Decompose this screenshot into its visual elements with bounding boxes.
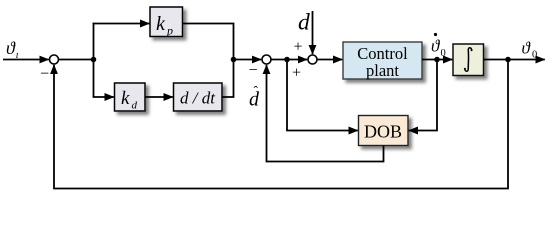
- wire: top path into kp: [93, 23, 150, 25]
- svg-text:d / dt: d / dt: [180, 89, 216, 108]
- svg-text:p: p: [166, 24, 173, 38]
- wire: kp output to merge: [183, 24, 234, 60]
- wire: S1 output to branch node: [59, 59, 94, 61]
- wire: d/dt output to merge: [222, 60, 234, 98]
- node: output label theta_0: [522, 39, 538, 61]
- wire: plant output tap down to DOB right input: [409, 60, 437, 131]
- wire: Control plant to integrator: [422, 59, 452, 61]
- block kd: [115, 83, 146, 112]
- svg-text:k: k: [121, 88, 130, 109]
- svg-text:−: −: [249, 62, 258, 79]
- block DOB: [359, 116, 409, 146]
- wire: tap down to DOB left input: [287, 60, 358, 131]
- svg-text:ϑ: ϑ: [431, 37, 441, 56]
- svg-text:d: d: [298, 10, 310, 36]
- node: tap dot to DOB input: [284, 57, 290, 63]
- wire: outer feedback loop: [54, 60, 508, 189]
- wire: merge to S2: [234, 59, 262, 61]
- wire: kd to d/dt: [145, 96, 173, 98]
- svg-text:ϑ: ϑ: [6, 38, 16, 58]
- block d/dt: [174, 83, 223, 111]
- summing junction S1: [50, 55, 59, 64]
- svg-text:ı: ı: [16, 50, 19, 61]
- wire: bottom path from branch to kd: [94, 95, 114, 98]
- wire: S3 to Control plant: [318, 59, 343, 61]
- svg-text:plant: plant: [366, 61, 399, 80]
- node: input label theta_i: [6, 38, 19, 61]
- node: label thetadot_0: [431, 33, 446, 59]
- svg-text:k: k: [156, 13, 166, 35]
- summing junction S3: [308, 55, 317, 64]
- svg-text:ϑ: ϑ: [522, 39, 532, 58]
- node: label dhat: [249, 84, 260, 111]
- svg-text:0: 0: [532, 50, 537, 61]
- node: merge dot: [231, 57, 237, 63]
- svg-text:0: 0: [441, 48, 446, 59]
- summing junction S2: [262, 55, 271, 64]
- wire: integrator output: [484, 59, 545, 61]
- svg-text:+: +: [294, 39, 303, 56]
- wire: input line theta_i: [3, 59, 49, 61]
- wire: branch vertical: [93, 23, 95, 97]
- svg-text:d: d: [132, 100, 138, 112]
- wire: S2 to S3 with tap dot: [272, 59, 308, 61]
- node: dot tap to DOB right: [434, 57, 440, 63]
- block kp: [150, 7, 183, 38]
- block integrator: [453, 44, 484, 76]
- block Control plant U1: [343, 42, 422, 80]
- wire: DOB output dhat to S2: [267, 65, 384, 162]
- svg-text:−: −: [40, 65, 49, 82]
- wire: d arrow into S3: [312, 11, 314, 54]
- svg-text:ˆ: ˆ: [254, 84, 259, 99]
- svg-text:DOB: DOB: [364, 122, 402, 142]
- svg-text:+: +: [292, 65, 301, 82]
- node: branch dot: [91, 57, 97, 63]
- node: output dot: [505, 57, 511, 63]
